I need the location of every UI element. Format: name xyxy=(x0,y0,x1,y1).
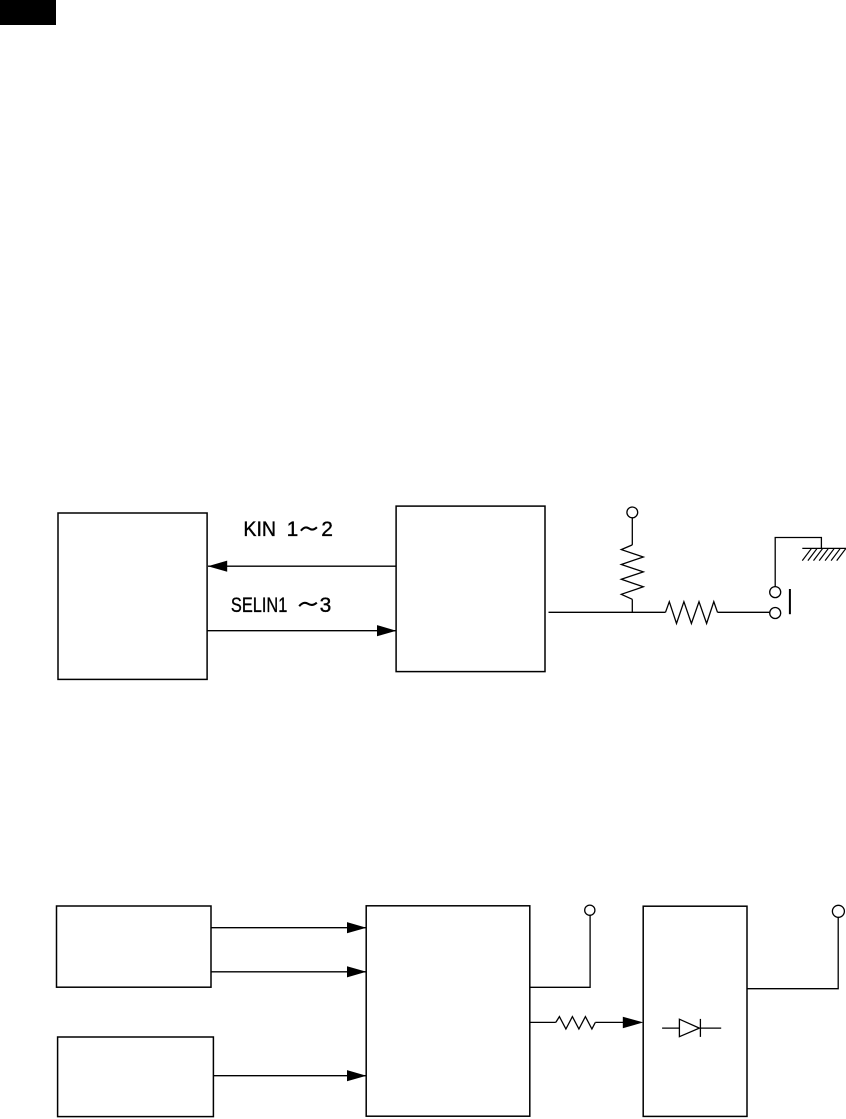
ground symbol xyxy=(802,548,846,560)
resistor R1 (pull-up, vertical) xyxy=(621,545,643,599)
wire: R2 to switch xyxy=(718,611,770,613)
switch SW1 contact circle (lower) xyxy=(770,608,781,619)
arrowhead xyxy=(623,1017,644,1028)
wire: U6 output to terminal xyxy=(747,917,838,988)
arrowhead SELIN xyxy=(377,625,396,636)
arrowhead xyxy=(347,966,366,977)
wire: U5 output to terminal xyxy=(530,915,590,987)
wire: switch to ground xyxy=(775,538,821,587)
arrowhead KIN xyxy=(208,561,227,572)
header black mark xyxy=(0,0,56,25)
resistor R3 xyxy=(556,1017,596,1029)
svg-text:2: 2 xyxy=(321,518,333,541)
box U6 (right block) xyxy=(643,906,747,1116)
switch SW1 actuator bar xyxy=(789,589,791,614)
svg-text:1: 1 xyxy=(287,518,299,541)
terminal circle (U6 output) xyxy=(832,905,844,917)
switch SW1 contact circle (upper) xyxy=(770,587,781,598)
box U5 (middle block) xyxy=(366,906,530,1116)
wire SELIN (U1 to U2) xyxy=(207,630,396,632)
svg-text:3: 3 xyxy=(320,594,332,617)
box U2 (right block) xyxy=(396,506,545,671)
wire: pull-up bottom lead xyxy=(631,599,633,612)
terminal circle (U5 output) xyxy=(585,905,595,915)
box U1 (left block) xyxy=(58,513,207,679)
wire: U3 to U5 (lower) xyxy=(211,971,366,973)
terminal circle (pull-up top) xyxy=(627,507,638,518)
wire: U3 to U5 (upper) xyxy=(211,927,366,929)
resistor R2 (series, horizontal) xyxy=(666,602,718,624)
net label SELIN1~3 xyxy=(231,593,331,617)
svg-text:KIN: KIN xyxy=(243,518,276,541)
wire: key line from U2 to R2 xyxy=(549,611,666,613)
wire: U5 to R3 xyxy=(530,1021,556,1023)
svg-text:SELIN1: SELIN1 xyxy=(231,593,287,616)
net label KIN 1~2 xyxy=(243,518,332,541)
box U3 (top-left block) xyxy=(57,906,212,987)
wire: pull-up top lead xyxy=(631,518,633,545)
diode D1 (inside U6) xyxy=(662,1019,721,1037)
arrowhead xyxy=(347,922,366,933)
wire KIN (U2 to U1) xyxy=(208,565,396,567)
arrowhead xyxy=(347,1070,366,1081)
wire: R3 to U6 xyxy=(595,1021,630,1023)
wire: U4 to U5 xyxy=(213,1075,366,1077)
box U4 (bottom-left block) xyxy=(58,1037,214,1117)
